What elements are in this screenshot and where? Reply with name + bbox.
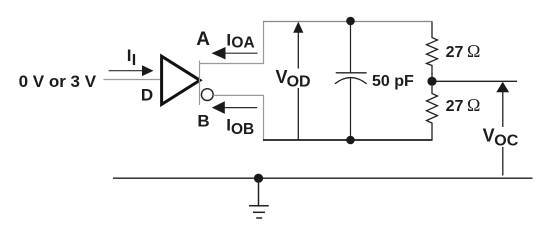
wire input — [104, 79, 161, 81]
svg-text:D: D — [141, 86, 153, 105]
wire B out — [213, 94, 264, 96]
svg-text:27: 27 — [446, 98, 464, 115]
svg-text:OD: OD — [287, 74, 311, 91]
wire A out — [200, 63, 265, 65]
svg-text:B: B — [197, 111, 209, 130]
svg-text:50 pF: 50 pF — [372, 73, 414, 90]
junction dot ground — [254, 174, 263, 183]
ground — [249, 178, 269, 218]
capacitor C leads — [350, 20, 352, 73]
wire A vertical — [263, 21, 265, 64]
svg-text:OC: OC — [494, 133, 518, 150]
voltage arrow VOD — [293, 22, 303, 140]
svg-text:0 V or 3 V: 0 V or 3 V — [19, 72, 97, 91]
junction dot cap top — [346, 17, 355, 26]
driver buffer triangle — [162, 56, 200, 104]
wire top rail — [263, 21, 432, 23]
junction dot mid resistors — [427, 77, 436, 86]
wire ground rail — [113, 177, 533, 179]
svg-text:I: I — [127, 46, 132, 65]
label VOD — [275, 67, 312, 91]
label VOC — [483, 126, 520, 150]
voltage arrow VOC — [496, 82, 509, 176]
wire output bar — [199, 61, 201, 106]
resistor R2 27ohm — [427, 86, 438, 140]
svg-text:OB: OB — [231, 121, 254, 138]
resistor R1 27ohm — [427, 22, 438, 78]
current arrow IOB — [212, 101, 257, 114]
svg-text:A: A — [196, 29, 210, 50]
svg-text:V: V — [483, 126, 495, 146]
current arrow II — [109, 65, 154, 76]
wire lower rail — [263, 139, 433, 141]
junction dot cap bottom — [346, 136, 355, 145]
svg-text:27: 27 — [446, 44, 464, 61]
svg-text:Ω: Ω — [467, 41, 480, 61]
svg-text:Ω: Ω — [467, 95, 480, 115]
wire B vertical — [263, 95, 265, 140]
current arrow IOA — [212, 47, 258, 59]
svg-text:OA: OA — [231, 35, 254, 52]
svg-text:I: I — [132, 52, 136, 69]
inverter bubble — [201, 89, 213, 101]
capacitor C plates — [336, 72, 367, 74]
wire mid node to VOC — [437, 80, 518, 82]
